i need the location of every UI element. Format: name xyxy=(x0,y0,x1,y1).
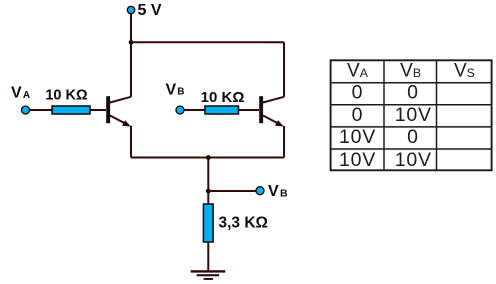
wire: emitter rail down to output node xyxy=(207,158,209,205)
svg-text:B: B xyxy=(280,187,288,199)
wire: R3 to ground xyxy=(207,242,209,270)
svg-text:3,3 KΩ: 3,3 KΩ xyxy=(219,214,268,231)
svg-text:V: V xyxy=(166,81,177,98)
wire: Q2 emitter down to common node xyxy=(283,126,285,158)
5V supply terminal xyxy=(127,6,134,13)
wire: top supply rail xyxy=(131,41,284,43)
wire: rail down to Q2 collector corner xyxy=(283,42,285,97)
resistor R2 10 KΩ xyxy=(205,106,239,114)
wire: VB terminal to R2 xyxy=(184,109,205,111)
input terminal VB xyxy=(176,106,184,114)
wire: common emitter rail xyxy=(131,157,284,159)
resistor R1 10 KΩ xyxy=(52,106,90,114)
resistor R3 3,3 KΩ xyxy=(203,204,213,242)
node junction on supply rail xyxy=(129,40,134,45)
svg-text:A: A xyxy=(23,90,30,101)
svg-text:0: 0 xyxy=(407,81,419,103)
wire: 5V down to Q1 collector corner xyxy=(130,14,132,97)
transistor Q2 xyxy=(259,96,284,126)
svg-text:10V: 10V xyxy=(395,149,432,171)
input terminal VA xyxy=(22,106,30,114)
node junction on emitter rail xyxy=(206,155,211,160)
wire: Q1 emitter down to common node xyxy=(130,126,132,158)
ground xyxy=(191,270,226,280)
svg-text:B: B xyxy=(177,87,184,98)
svg-text:10V: 10V xyxy=(339,126,376,148)
node junction at output tap xyxy=(206,189,211,194)
svg-text:10V: 10V xyxy=(339,149,376,171)
wire: VA terminal to R1 xyxy=(30,109,53,111)
transistor Q1 xyxy=(106,96,131,126)
svg-text:V: V xyxy=(11,85,22,102)
output terminal VB xyxy=(256,187,264,195)
truth table xyxy=(331,60,492,170)
svg-text:5 V: 5 V xyxy=(138,2,162,19)
svg-text:10 KΩ: 10 KΩ xyxy=(45,87,88,103)
wire: R1 to Q1 base xyxy=(90,109,106,111)
svg-text:0: 0 xyxy=(407,126,419,148)
wire: output tap to terminal xyxy=(208,190,256,192)
svg-text:10 KΩ: 10 KΩ xyxy=(201,89,245,106)
svg-text:10V: 10V xyxy=(395,104,432,126)
svg-text:0: 0 xyxy=(352,81,364,103)
svg-text:V: V xyxy=(268,183,279,200)
svg-text:0: 0 xyxy=(352,104,364,126)
wire: R2 to Q2 base xyxy=(239,109,260,111)
